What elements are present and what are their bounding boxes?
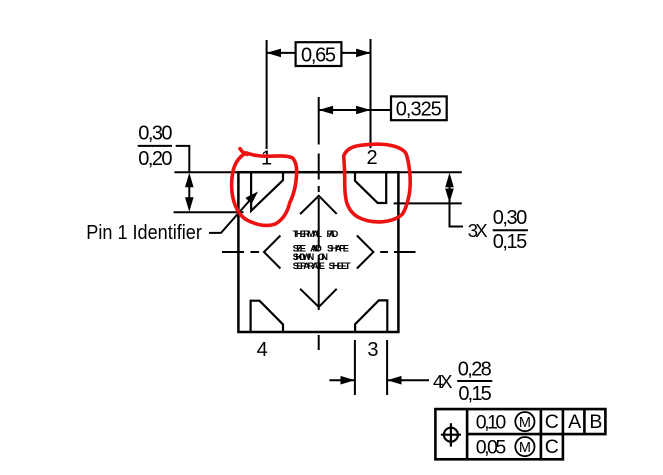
svg-text:4X: 4X: [433, 371, 453, 392]
dimension 0,325 dimension line: [319, 109, 371, 111]
dimension 0,65 arrow right: [356, 49, 370, 58]
dimension 0,30/0,20 fraction bar: [138, 145, 172, 147]
dimension 0,30/0,20 top extension line: [174, 171, 238, 173]
thermal pad diamond chevron left: [264, 236, 280, 269]
svg-text:PAD: PAD: [327, 229, 339, 239]
dimension 3X arrow up: [445, 173, 454, 187]
dimension 3X arrow down: [445, 189, 454, 203]
tolerance cell divider: [540, 409, 543, 459]
dimension 4X extension line right: [386, 340, 388, 395]
dimension 4X extension line left: [354, 340, 356, 395]
svg-text:0,30: 0,30: [138, 123, 172, 145]
svg-text:THERMAL: THERMAL: [293, 229, 323, 239]
svg-text:SHEET: SHEET: [329, 261, 351, 271]
arrowheads: [185, 49, 454, 385]
svg-text:A: A: [568, 411, 581, 433]
frame row divider: [467, 433, 563, 436]
pin 1 identifier arrowhead: [245, 192, 258, 205]
svg-text:3: 3: [367, 339, 378, 361]
dimension 0,325 arrow left: [319, 106, 333, 115]
dimension 0,30/0,20 bottom extension line: [174, 211, 244, 213]
svg-text:0,15: 0,15: [493, 231, 528, 253]
dimension 0,325 box: [391, 96, 447, 120]
dimension 3X dimension line and leader foot: [450, 183, 464, 227]
dimension 4X arrow tails: [329, 379, 355, 381]
svg-text:SEPARATE: SEPARATE: [293, 261, 325, 271]
dimension 4X fraction bar: [457, 380, 492, 382]
package outline: [238, 172, 398, 332]
svg-text:B: B: [589, 411, 602, 433]
red annotation circle pin 2: [344, 144, 410, 222]
dimension 4X arrow right: [387, 376, 401, 385]
thermal pad diamond chevron right: [357, 236, 374, 269]
dimension 4X arrow left: [341, 376, 355, 385]
frame outer boundary: [435, 409, 605, 459]
dimension 3X bottom extension line: [394, 202, 462, 204]
svg-text:0,15: 0,15: [458, 383, 491, 405]
svg-text:SHAPE: SHAPE: [327, 244, 349, 254]
pad pin 2: [355, 172, 386, 203]
svg-text:0,28: 0,28: [458, 359, 492, 381]
C cell divider row1: [562, 409, 565, 434]
pad pin 3: [355, 300, 387, 332]
thermal pad note text: [293, 229, 351, 271]
dimension 0,30/0,20 arrow up: [185, 173, 194, 187]
dimension 3X top extension line: [398, 171, 462, 173]
dimension 0,65 box: [296, 42, 342, 66]
dimension 3X fraction bar: [493, 229, 528, 231]
pad pin 1: [251, 172, 283, 211]
dimension 0,30/0,20 dimension line: [188, 183, 190, 201]
svg-text:0,10: 0,10: [476, 412, 507, 434]
position symbol: [441, 423, 461, 446]
svg-text:4: 4: [257, 339, 268, 361]
dimension 0,65 dimension line: [267, 52, 296, 54]
svg-text:3X: 3X: [468, 220, 488, 241]
material condition symbol row 2: [515, 437, 534, 456]
svg-text:C: C: [545, 436, 559, 458]
pad pin 4: [251, 301, 283, 332]
dimension 0,325 arrow right: [356, 106, 370, 115]
pin 1 identifier leader: [209, 200, 251, 233]
dimension 0,30/0,20 leader: [176, 146, 190, 172]
dimension 0,30/0,20 arrow down: [185, 197, 194, 211]
svg-text:Pin 1 Identifier: Pin 1 Identifier: [86, 222, 202, 244]
thermal pad diamond chevron bottom: [300, 289, 337, 307]
svg-text:0,05: 0,05: [476, 437, 507, 459]
horizontal centerline: [222, 251, 416, 253]
vertical centerline: [318, 97, 320, 350]
svg-text:0,65: 0,65: [301, 44, 336, 66]
svg-text:C: C: [545, 411, 559, 433]
svg-text:1: 1: [261, 147, 272, 169]
dimension 0,65 extension line pin1: [266, 40, 268, 149]
svg-text:M: M: [519, 440, 531, 456]
thermal pad diamond chevron top: [300, 196, 337, 214]
feature control frame: [435, 409, 605, 459]
material condition symbol row 1: [515, 412, 534, 431]
svg-text:0,20: 0,20: [138, 148, 172, 170]
svg-text:M: M: [519, 415, 531, 431]
svg-text:2: 2: [366, 147, 377, 169]
dimension 0,65 arrow left: [267, 49, 281, 58]
datum cell left divider erase (none): [476, 411, 603, 459]
dimension 0,65 extension line pin2: [370, 39, 372, 148]
svg-text:0,325: 0,325: [396, 99, 442, 121]
datum cell divider: [466, 409, 469, 459]
A cell divider: [583, 409, 586, 434]
svg-text:0,30: 0,30: [493, 207, 528, 229]
red annotation circle pin 1: [232, 149, 297, 226]
